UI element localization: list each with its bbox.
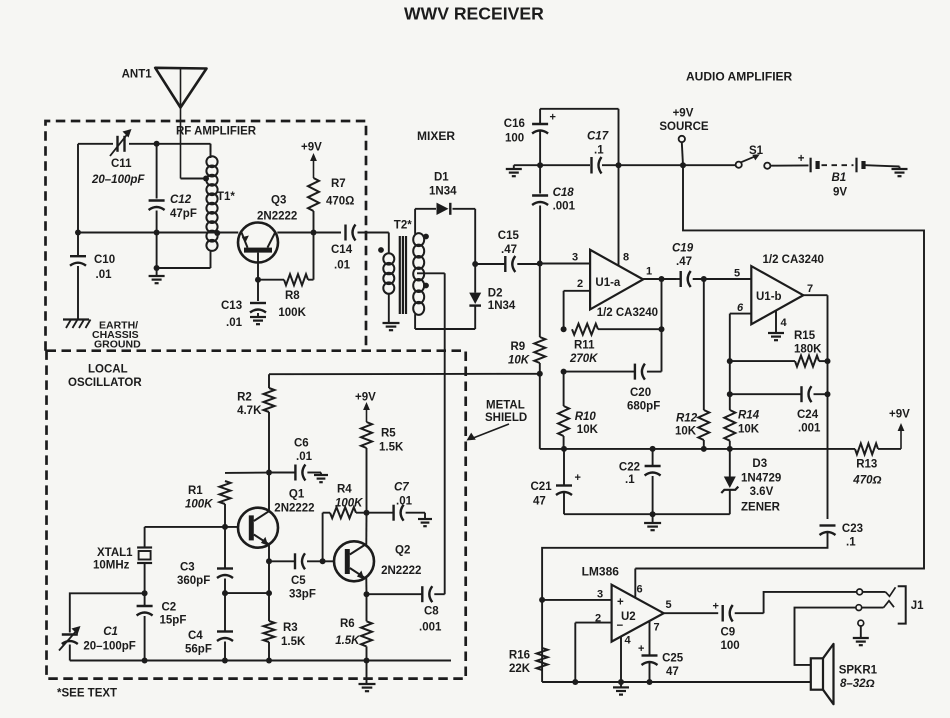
svg-text:.01: .01 [334, 260, 351, 272]
svg-text:5: 5 [665, 599, 671, 611]
svg-text:ANT1: ANT1 [122, 69, 153, 81]
wire pin8 [618, 165, 620, 266]
wire oscillator injection [444, 273, 446, 594]
wire D1 top [415, 209, 475, 264]
svg-text:R13: R13 [856, 459, 877, 471]
svg-text:LOCAL: LOCAL [88, 364, 128, 376]
svg-text:XTAL1: XTAL1 [97, 547, 133, 559]
node T2 secondary phasing dot tap [423, 283, 429, 289]
svg-text:Q1: Q1 [289, 489, 305, 501]
svg-text:3.6V: 3.6V [750, 486, 774, 498]
svg-text:1/2 CA3240: 1/2 CA3240 [763, 254, 824, 266]
svg-text:+: + [617, 597, 624, 609]
node C4 rail [222, 658, 228, 664]
svg-text:+9V: +9V [889, 409, 910, 421]
resistor R6 [335, 594, 372, 660]
capacitor C4 [185, 593, 233, 660]
svg-text:U1-b: U1-b [756, 291, 782, 303]
svg-text:C23: C23 [842, 523, 863, 535]
wire pin6 stem [634, 569, 636, 599]
capacitor C1 (variable) [59, 626, 136, 661]
label METAL SHIELD [467, 400, 528, 441]
node XTAL bottom [142, 590, 148, 596]
resistor R12 [675, 279, 709, 449]
capacitor C10 [70, 254, 115, 281]
switch S1 [736, 145, 771, 169]
svg-text:ZENER: ZENER [741, 502, 781, 514]
capacitor C23 [820, 523, 864, 549]
svg-text:4.7K: 4.7K [237, 405, 262, 417]
svg-text:R15: R15 [794, 330, 816, 342]
label AUDIO AMPLIFIER [686, 70, 793, 84]
capacitor C12 [149, 144, 197, 268]
capacitor C15 [475, 230, 538, 272]
svg-text:9V: 9V [833, 187, 847, 199]
node T1 bottom [154, 265, 160, 271]
svg-text:.01: .01 [96, 269, 113, 281]
svg-text:6: 6 [636, 584, 642, 596]
svg-text:22K: 22K [509, 663, 531, 675]
svg-text:AUDIO AMPLIFIER: AUDIO AMPLIFIER [686, 70, 793, 84]
wire U1-b output [803, 295, 827, 519]
wire B1 to ground [866, 165, 900, 169]
svg-text:270K: 270K [569, 353, 598, 365]
svg-text:6: 6 [737, 302, 744, 314]
terminal +9V SOURCE [659, 108, 709, 166]
wire Q1 base [145, 526, 239, 528]
wire T2 center tap [417, 272, 445, 274]
capacitor C9 (electrolytic) [713, 601, 764, 653]
ground supply left [506, 165, 522, 176]
wire S1 to B1 [770, 164, 808, 166]
wire oscillator rail [70, 660, 451, 662]
svg-text:R4: R4 [337, 484, 352, 496]
inductor T2 secondary [413, 209, 424, 329]
svg-text:+: + [798, 153, 805, 165]
transformer core T2 [400, 236, 406, 314]
crystal XTAL1 [93, 527, 152, 593]
node C12 bottom [154, 230, 160, 236]
capacitor C21 (electrolytic) [531, 449, 653, 514]
node R9 bottom [537, 371, 543, 377]
speaker SPKR1 [811, 644, 878, 704]
svg-text:D2: D2 [488, 288, 503, 300]
resistor R10 [558, 372, 598, 449]
node pin4 rail [618, 679, 624, 685]
svg-text:SPKR1: SPKR1 [839, 665, 878, 677]
wire pin2 [575, 623, 611, 682]
power +9V (R13) [889, 409, 910, 449]
svg-text:1/2 CA3240: 1/2 CA3240 [597, 307, 658, 319]
svg-text:R1: R1 [188, 485, 203, 497]
zener D3 1N4729 [653, 449, 782, 514]
svg-text:C15: C15 [498, 230, 520, 242]
label MIXER [417, 129, 455, 143]
capacitor C19 [672, 243, 751, 288]
svg-text:D1: D1 [434, 172, 449, 184]
svg-text:C25: C25 [662, 653, 684, 665]
node C16 bottom [537, 162, 543, 168]
svg-text:+9V: +9V [355, 392, 376, 404]
svg-text:.47: .47 [501, 244, 517, 256]
svg-text:R11: R11 [574, 340, 595, 352]
svg-text:R6: R6 [340, 618, 355, 630]
op-amp U1-a [572, 250, 658, 319]
wire antenna tap [181, 178, 205, 180]
wire jack sleeve ground [860, 626, 862, 638]
svg-text:470Ω: 470Ω [326, 196, 354, 208]
battery B1 9V [798, 153, 864, 199]
svg-text:.1: .1 [625, 474, 635, 486]
capacitor C5 [269, 553, 334, 600]
svg-text:C10: C10 [94, 254, 115, 266]
svg-text:C9: C9 [721, 627, 736, 639]
node C10 junction [75, 230, 81, 236]
svg-text:R14: R14 [738, 410, 760, 422]
node C11-T1 top [154, 141, 160, 147]
svg-text:.01: .01 [396, 496, 413, 508]
svg-text:R10: R10 [575, 411, 597, 423]
capacitor C2 [137, 593, 187, 660]
ground T2 [383, 323, 400, 330]
svg-text:R3: R3 [283, 622, 298, 634]
svg-text:R9: R9 [511, 341, 526, 353]
title WWV RECEIVER [404, 4, 544, 24]
svg-text:47: 47 [533, 496, 546, 508]
resistor R7 [308, 178, 354, 233]
svg-text:T1*: T1* [217, 191, 235, 203]
node T2 primary phasing dot [378, 247, 384, 253]
svg-text:LM386: LM386 [582, 565, 620, 579]
svg-text:SHIELD: SHIELD [485, 412, 527, 424]
node Q3 emitter [255, 277, 261, 283]
node Q1 emitter [266, 558, 272, 564]
svg-text:C4: C4 [188, 630, 203, 642]
svg-text:1N34: 1N34 [429, 186, 457, 198]
ground B1 [892, 169, 908, 176]
svg-text:OSCILLATOR: OSCILLATOR [68, 377, 142, 389]
wire Q1 collector stem [268, 473, 270, 512]
capacitor C22 [619, 449, 661, 514]
capacitor C8 [367, 586, 445, 633]
resistor R11 [561, 324, 665, 365]
svg-text:R12: R12 [676, 413, 698, 425]
svg-text:33pF: 33pF [289, 589, 316, 601]
svg-text:1.5K: 1.5K [281, 636, 306, 648]
wire +9V rail [635, 165, 924, 568]
wire C16 top loop [540, 109, 618, 165]
wire bias bus [540, 448, 855, 450]
svg-text:15pF: 15pF [160, 615, 187, 627]
svg-text:+: + [638, 643, 644, 655]
svg-text:8–32Ω: 8–32Ω [840, 678, 875, 690]
svg-text:C18: C18 [553, 187, 575, 199]
ground C6 [314, 475, 328, 482]
wire C11 top [78, 144, 211, 152]
node R14 bus [727, 446, 733, 452]
svg-text:100K: 100K [185, 499, 213, 511]
svg-text:C21: C21 [531, 481, 553, 493]
svg-text:METAL: METAL [486, 400, 525, 412]
wire pin2 [564, 291, 591, 329]
wire T2 bottom loop [415, 306, 475, 329]
capacitor C14 [331, 225, 389, 272]
svg-text:C16: C16 [504, 118, 525, 130]
svg-text:47: 47 [666, 666, 679, 678]
svg-text:20–100pF: 20–100pF [91, 174, 145, 186]
svg-text:.47: .47 [676, 256, 692, 268]
ground U2 [613, 682, 629, 695]
inductor T2 primary [383, 220, 412, 324]
svg-text:C19: C19 [672, 243, 694, 255]
op-amp U1-b [734, 254, 824, 329]
wire Q2 emitter stem [365, 578, 367, 594]
svg-text:C24: C24 [797, 409, 819, 421]
svg-text:C22: C22 [619, 462, 640, 474]
svg-text:10K: 10K [577, 424, 599, 436]
wire pin6 [730, 314, 752, 362]
wire tank to Q3 [78, 232, 238, 234]
svg-text:.01: .01 [226, 317, 243, 329]
ground C13 [250, 317, 266, 324]
svg-text:C6: C6 [294, 438, 309, 450]
svg-text:J1: J1 [911, 600, 924, 612]
svg-text:+9V: +9V [301, 142, 322, 154]
wire output rail [542, 681, 811, 683]
resistor R2 [237, 388, 274, 473]
svg-text:10K: 10K [508, 355, 530, 367]
capacitor C6 [269, 438, 321, 481]
svg-text:GROUND: GROUND [94, 339, 141, 351]
svg-text:4: 4 [780, 317, 787, 329]
wire left branch [77, 144, 79, 320]
capacitor C7 [367, 482, 426, 521]
svg-text:7: 7 [807, 283, 813, 295]
chassis ground (earth) [63, 320, 141, 351]
wire C1 branch [70, 593, 145, 632]
svg-text:8: 8 [623, 252, 629, 264]
svg-text:10K: 10K [675, 426, 697, 438]
ground C7 [418, 519, 432, 526]
wire Q3 collector [277, 232, 341, 234]
node C25 rail [647, 679, 653, 685]
antenna ANT1 [122, 68, 207, 179]
resistor R4 [323, 484, 367, 562]
node ground rail [650, 511, 656, 517]
svg-text:10MHz: 10MHz [93, 560, 130, 572]
svg-text:360pF: 360pF [177, 575, 210, 587]
node T2 secondary phasing dot top [423, 234, 429, 240]
svg-text:C20: C20 [630, 387, 651, 399]
jack J1 contacts [856, 586, 924, 626]
wire pin1 to C20 [661, 279, 663, 372]
svg-text:.001: .001 [419, 622, 442, 634]
node C3 bottom [222, 590, 228, 596]
node R4 base tap [320, 558, 326, 564]
RF amplifier shield box [46, 121, 367, 351]
svg-text:Q2: Q2 [395, 545, 410, 557]
svg-text:470Ω: 470Ω [852, 475, 881, 487]
wire R9 to bus [539, 374, 541, 449]
svg-text:47pF: 47pF [170, 208, 197, 220]
node R3 tap [266, 590, 272, 596]
resistor R5 [361, 422, 404, 513]
svg-text:S1: S1 [749, 145, 764, 157]
node mixer output [472, 261, 478, 267]
capacitor C24 [727, 386, 831, 434]
capacitor C13 [221, 300, 266, 329]
svg-text:.001: .001 [798, 423, 821, 435]
wire Q3 emitter [257, 253, 259, 301]
node C2 rail [142, 658, 148, 664]
svg-text:5: 5 [734, 268, 740, 280]
svg-text:20–100pF: 20–100pF [83, 641, 135, 653]
svg-text:B1: B1 [832, 172, 847, 184]
capacitor C18 [532, 165, 575, 261]
node pin2 rail [572, 679, 578, 685]
svg-text:U1-a: U1-a [595, 277, 621, 289]
svg-text:1.5K: 1.5K [335, 635, 360, 647]
svg-text:R5: R5 [381, 428, 396, 440]
transistor Q1 2N2222 [238, 489, 315, 548]
svg-text:100K: 100K [335, 498, 363, 510]
resistor R16 [509, 648, 548, 675]
wire C15 to pin3 node [539, 261, 541, 266]
svg-text:1N34: 1N34 [488, 300, 516, 312]
node R6 rail [364, 658, 370, 664]
capacitor C16 (electrolytic) [504, 109, 556, 165]
svg-text:56pF: 56pF [185, 644, 212, 656]
wire injection bus [269, 374, 540, 388]
inductor T1 [157, 144, 236, 276]
svg-text:+: + [550, 112, 556, 124]
svg-text:.1: .1 [846, 537, 856, 549]
svg-text:3: 3 [572, 252, 578, 264]
wire jack NC to speaker [795, 608, 856, 665]
svg-text:T2*: T2* [394, 220, 412, 232]
svg-text:C7: C7 [394, 482, 409, 494]
local oscillator shield box [47, 351, 466, 679]
resistor R8 [258, 233, 314, 320]
wire pin4 stem [620, 637, 622, 683]
resistor R15 [727, 330, 831, 367]
node R10 bus [561, 446, 567, 452]
svg-text:100: 100 [721, 640, 740, 652]
transistor Q2 2N2222 [334, 541, 421, 581]
svg-text:−: − [617, 620, 624, 632]
svg-text:2N2222: 2N2222 [381, 565, 421, 577]
svg-text:R2: R2 [237, 392, 252, 404]
wire pin3 [542, 599, 612, 601]
svg-text:C3: C3 [180, 562, 195, 574]
capacitor C17 [587, 131, 609, 174]
svg-text:+: + [713, 601, 719, 613]
svg-text:1: 1 [646, 266, 652, 278]
diode D1 1N34 [429, 172, 457, 216]
node Q2 emitter [364, 591, 370, 597]
wire pin4 ground [768, 311, 784, 340]
node antenna tap [203, 176, 209, 182]
node U1-b pin5 [701, 276, 707, 282]
svg-text:+9V: +9V [673, 108, 694, 120]
svg-text:C5: C5 [291, 575, 306, 587]
wire C3 to R3 [225, 592, 269, 594]
wire supply bus [514, 164, 736, 166]
svg-text:.001: .001 [553, 201, 576, 213]
svg-text:10K: 10K [738, 424, 760, 436]
node Q3 collector [311, 230, 317, 236]
capacitor C25 (electrolytic) [638, 621, 684, 682]
node C17 right [616, 162, 622, 168]
label SEE TEXT [57, 688, 117, 700]
svg-text:C1: C1 [103, 626, 118, 638]
node tank-coil [214, 230, 220, 236]
power +9V (R7) [301, 142, 322, 179]
svg-text:R7: R7 [331, 178, 346, 190]
node U2 pin3 [539, 597, 545, 603]
svg-text:C12: C12 [170, 194, 192, 206]
svg-text:SOURCE: SOURCE [659, 121, 709, 133]
svg-text:C2: C2 [162, 602, 177, 614]
svg-text:1N4729: 1N4729 [741, 473, 781, 485]
node U1-a pin1 [659, 276, 665, 282]
power +9V (R5) [355, 392, 376, 423]
node R1 base [222, 524, 228, 530]
svg-text:R8: R8 [285, 290, 300, 302]
svg-text:C13: C13 [221, 300, 242, 312]
wire audio input [542, 547, 827, 683]
svg-text:WWV RECEIVER: WWV RECEIVER [404, 4, 544, 24]
node R3 rail [266, 658, 272, 664]
svg-text:2N2222: 2N2222 [274, 503, 314, 515]
svg-text:1.5K: 1.5K [379, 442, 404, 454]
transistor Q3 2N2222 [238, 195, 297, 263]
svg-text:.01: .01 [296, 451, 313, 463]
node Q1 collector [266, 470, 272, 476]
capacitor C20 [561, 364, 662, 413]
svg-text:4: 4 [624, 635, 631, 647]
svg-text:D3: D3 [752, 458, 767, 470]
svg-text:2N2222: 2N2222 [257, 211, 297, 223]
svg-text:C11: C11 [111, 158, 132, 170]
wire C9 to jack [764, 592, 857, 613]
resistor R9 [508, 264, 545, 374]
ground J1 [853, 638, 869, 645]
resistor R1 [185, 473, 269, 527]
svg-text:100: 100 [505, 133, 524, 145]
ground oscillator [359, 661, 376, 692]
ground T1 [149, 276, 165, 283]
node U1-a pin3 [537, 261, 543, 267]
svg-text:2: 2 [577, 278, 583, 290]
svg-text:180K: 180K [794, 344, 822, 356]
svg-text:100K: 100K [278, 307, 306, 319]
svg-text:C14: C14 [331, 244, 353, 256]
wire U2 output [664, 612, 719, 614]
svg-text:.1: .1 [594, 145, 604, 157]
op-amp U2 LM386 [582, 565, 672, 647]
node C22 bus [650, 446, 656, 452]
resistor R14 [724, 361, 759, 449]
diode D2 1N34 [469, 264, 516, 312]
node Q2 collector [364, 510, 370, 516]
svg-text:3: 3 [597, 589, 603, 601]
svg-text:C8: C8 [424, 606, 439, 618]
svg-text:+: + [575, 472, 581, 484]
svg-text:680pF: 680pF [627, 401, 660, 413]
capacitor C11 [91, 129, 145, 186]
svg-text:*SEE TEXT: *SEE TEXT [57, 688, 117, 700]
